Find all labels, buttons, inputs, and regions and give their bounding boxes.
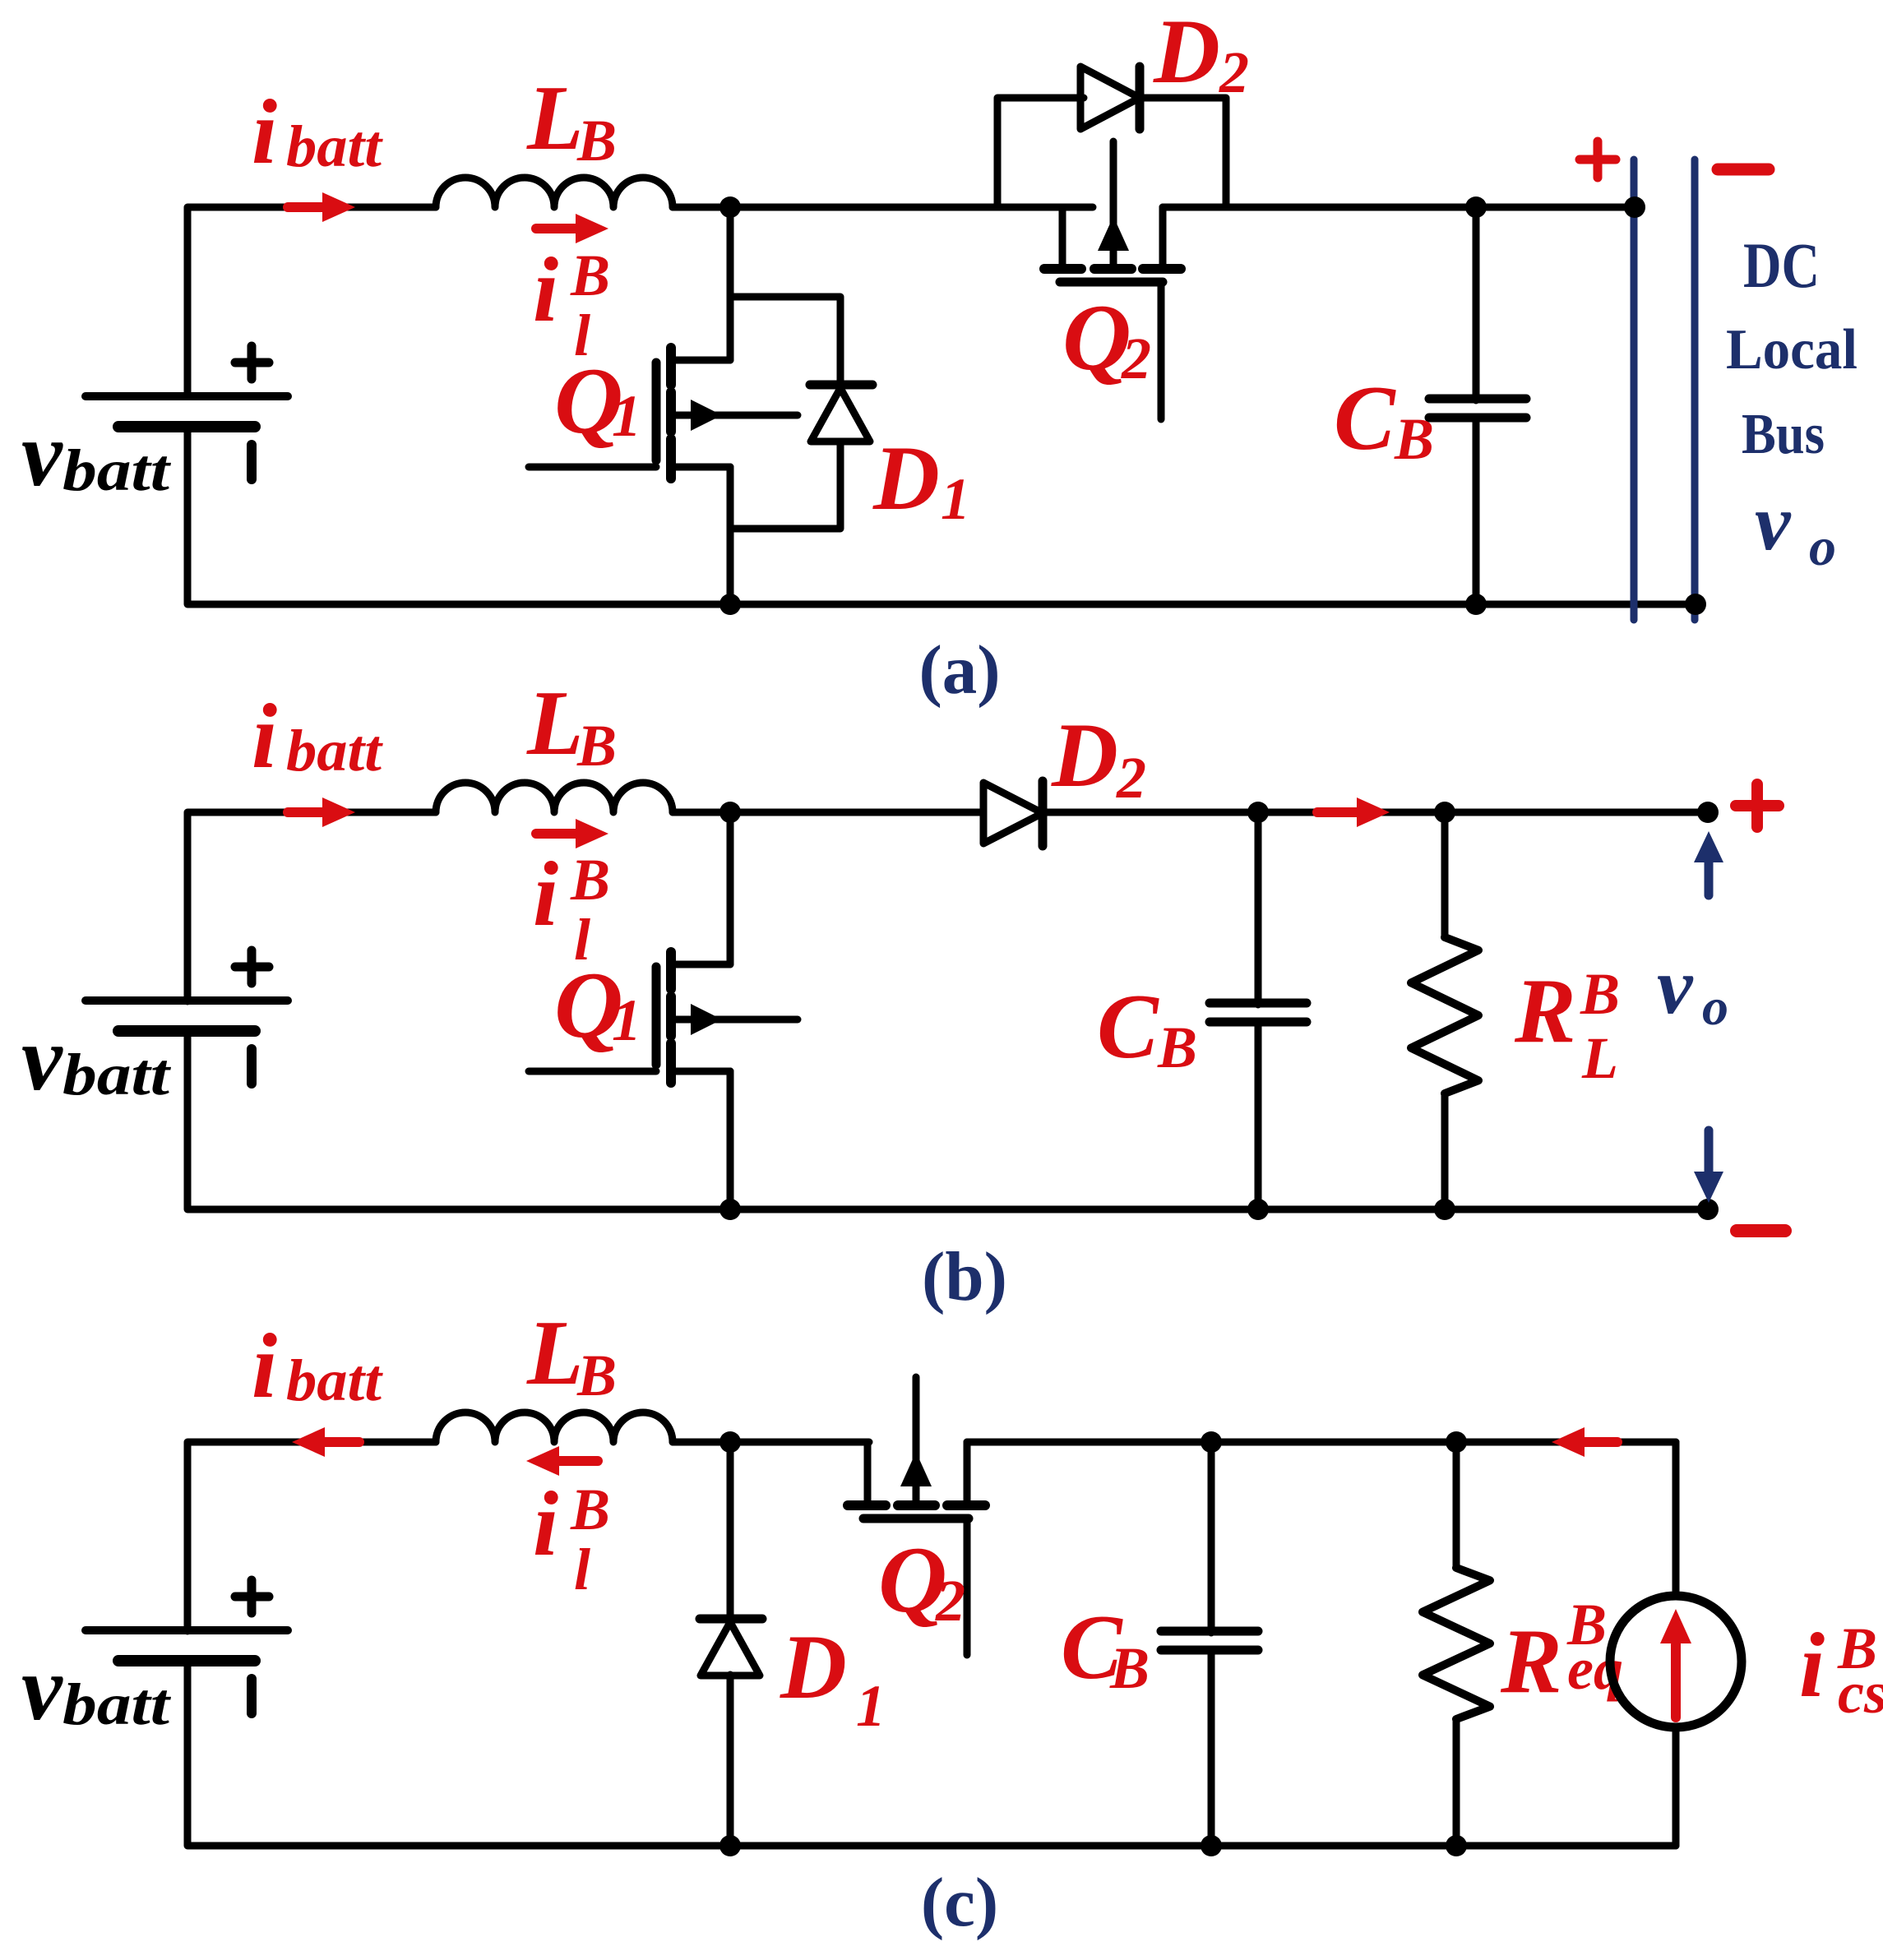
svg-text:i: i — [533, 844, 558, 945]
transistor Q2 (c) — [864, 1442, 872, 1505]
node: C_B top (c) — [1201, 1431, 1222, 1453]
svg-text:B: B — [576, 108, 617, 173]
node: switch node bottom (c) — [719, 1835, 741, 1856]
node: switch node top (a) — [719, 196, 741, 218]
svg-text:batt: batt — [62, 437, 171, 503]
wire: bottom rail (c) — [187, 1661, 1676, 1846]
DC bus bar positive (a) — [1631, 159, 1638, 620]
svg-text:D: D — [780, 1616, 847, 1718]
node: switch node bottom (b) — [719, 1199, 741, 1220]
svg-text:B: B — [1157, 1015, 1197, 1080]
svg-text:l: l — [574, 1537, 590, 1602]
wire: battery positive to inductor, section c — [187, 1442, 436, 1631]
capacitor C_B (b) — [1255, 812, 1262, 1005]
inductor L_B (b) — [436, 783, 673, 812]
label + polarity (a) — [1580, 155, 1616, 164]
inductor L_B (a) — [436, 178, 673, 207]
battery v_batt (c) — [86, 1626, 288, 1634]
svg-text:1: 1 — [612, 987, 641, 1053]
svg-text:B: B — [1394, 406, 1434, 472]
svg-text:DC: DC — [1743, 229, 1820, 301]
svg-text:1: 1 — [856, 1673, 886, 1739]
node: C_B bottom (a) — [1465, 594, 1487, 615]
svg-text:L: L — [1581, 1025, 1618, 1091]
wire: D2 cathode to output node (b) — [1043, 809, 1708, 816]
svg-text:B: B — [1109, 1635, 1150, 1701]
svg-text:B: B — [570, 243, 610, 308]
svg-text:i: i — [1799, 1615, 1825, 1717]
svg-text:v: v — [21, 404, 63, 506]
svg-text:B: B — [570, 847, 610, 913]
svg-text:(a): (a) — [918, 631, 1000, 709]
DC bus bar negative (a) — [1691, 159, 1699, 620]
resistor R_eq (c) — [1453, 1442, 1460, 1568]
svg-text:C: C — [1334, 367, 1396, 469]
svg-text:Local: Local — [1726, 318, 1858, 381]
label - polarity (a) — [1718, 164, 1769, 176]
node: switch node top (c) — [719, 1431, 741, 1453]
svg-text:batt: batt — [62, 1671, 171, 1737]
svg-text:B: B — [570, 1477, 610, 1542]
svg-text:o: o — [1702, 978, 1728, 1036]
node: bus positive terminal (a) — [1624, 196, 1645, 218]
capacitor C_B (a) — [1473, 207, 1480, 400]
svg-text:v: v — [21, 1638, 63, 1740]
node: switch node top (b) — [719, 802, 741, 823]
wire: Q2 to current source (c) — [967, 1439, 1676, 1446]
node: C_B bottom (b) — [1247, 1199, 1269, 1220]
svg-text:B: B — [576, 713, 617, 779]
svg-text:2: 2 — [1116, 745, 1146, 811]
svg-text:D: D — [1051, 705, 1118, 807]
node: output positive (b) — [1697, 802, 1719, 823]
battery v_batt (a) — [86, 392, 288, 400]
svg-text:R: R — [1514, 960, 1576, 1062]
svg-text:L: L — [526, 1302, 583, 1404]
svg-text:1: 1 — [941, 466, 970, 532]
svg-text:(b): (b) — [922, 1238, 1007, 1315]
svg-text:v: v — [1755, 478, 1792, 567]
svg-text:C: C — [1097, 976, 1159, 1078]
svg-text:batt: batt — [286, 718, 383, 784]
current arrow i_batt (b) — [288, 807, 327, 817]
node: R_eq top (c) — [1446, 1431, 1467, 1453]
current arrow i_batt (a) — [288, 202, 327, 212]
voltage arrow up (b) — [1705, 857, 1714, 895]
node: C_B bottom (c) — [1201, 1835, 1222, 1856]
battery v_batt (b) — [86, 996, 288, 1005]
current arrow i_l (c) — [554, 1456, 598, 1466]
svg-text:B: B — [576, 1343, 617, 1408]
wire: bottom rail (b) — [187, 1031, 1708, 1209]
current arrow into node (c) — [1580, 1437, 1617, 1447]
current arrow i_batt (c) — [320, 1437, 359, 1447]
svg-text:batt: batt — [62, 1042, 171, 1107]
svg-text:i: i — [533, 1473, 558, 1575]
svg-text:D: D — [872, 428, 940, 529]
node: R_eq bottom (c) — [1446, 1835, 1467, 1856]
svg-text:cs: cs — [1838, 1660, 1883, 1726]
wire: current source top (c) — [1672, 1442, 1680, 1596]
label - polarity (b) — [1737, 1224, 1785, 1237]
svg-text:Bus: Bus — [1742, 403, 1825, 466]
wire: inductor to switch node (a) — [673, 204, 1093, 211]
inductor L_B (c) — [436, 1412, 673, 1442]
diode D1 (a) — [730, 297, 840, 385]
svg-text:L: L — [526, 673, 583, 774]
svg-text:B: B — [1580, 961, 1620, 1027]
wire: bottom rail (a) — [187, 427, 1696, 604]
svg-text:batt: batt — [286, 113, 383, 179]
wire: inductor to switch node (b) — [673, 809, 983, 816]
transistor Q1 (a) — [529, 464, 656, 471]
current arrow i_l (b) — [536, 829, 581, 839]
current arrow i_o (b) — [1317, 807, 1362, 817]
current arrow i_l (a) — [536, 224, 581, 233]
node: C_B top (a) — [1465, 196, 1487, 218]
voltage arrow down (b) — [1705, 1130, 1714, 1176]
node: switch node bottom (a) — [719, 594, 741, 615]
wire: Q2 to DC bus (a) — [1163, 204, 1635, 211]
diode D2 (b) — [983, 783, 1043, 844]
node: bus negative terminal (a) — [1685, 594, 1706, 615]
diode D1 (c) — [727, 1442, 734, 1620]
transistor Q1 (b) — [529, 1068, 656, 1075]
svg-text:R: R — [1500, 1611, 1562, 1713]
wire: battery positive to inductor, section b — [187, 812, 436, 1001]
resistor R_L (b) — [1441, 812, 1449, 937]
transistor Q2 (a) — [1059, 207, 1066, 269]
node: R_L top (b) — [1434, 802, 1455, 823]
svg-text:2: 2 — [1219, 39, 1249, 105]
wire: battery positive to inductor, section a — [187, 207, 436, 396]
wire: current source bottom (c) — [1672, 1727, 1680, 1846]
node: output negative (b) — [1697, 1199, 1719, 1220]
svg-text:D: D — [1153, 1, 1220, 103]
svg-text:2: 2 — [1121, 326, 1151, 391]
label + polarity (b) — [1736, 800, 1779, 811]
svg-text:i: i — [533, 239, 558, 341]
svg-text:v: v — [1657, 942, 1694, 1031]
node: C_B top (b) — [1247, 802, 1269, 823]
wire: inductor to switch node (c) — [673, 1439, 869, 1446]
svg-text:o: o — [1809, 517, 1836, 577]
svg-text:2: 2 — [935, 1568, 965, 1634]
svg-text:i: i — [252, 81, 277, 183]
current source i_cs (c) — [1610, 1596, 1742, 1727]
svg-text:v: v — [21, 1008, 63, 1110]
svg-text:L: L — [526, 67, 583, 169]
svg-text:i: i — [252, 686, 277, 788]
node: R_L bottom (b) — [1434, 1199, 1455, 1220]
capacitor C_B (c) — [1208, 1442, 1215, 1633]
svg-text:batt: batt — [286, 1347, 383, 1413]
svg-text:1: 1 — [612, 383, 641, 449]
svg-text:(c): (c) — [921, 1864, 998, 1941]
svg-text:i: i — [252, 1315, 277, 1417]
diode D2 with bypass wires (a) — [997, 98, 1084, 207]
